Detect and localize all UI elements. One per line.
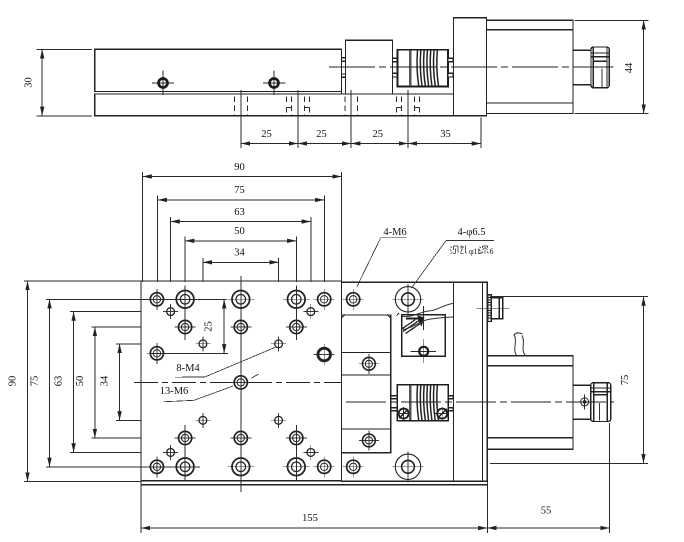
cable clamp block (plan)	[402, 315, 445, 357]
through hole col 50L row 75B	[172, 453, 199, 480]
cable clamp detail	[403, 306, 425, 334]
dimension 30 (stage height)	[24, 49, 43, 116]
svg-text:75: 75	[234, 185, 245, 196]
dimension 155 (base length)	[141, 513, 487, 528]
through hole col C row 75T	[227, 286, 254, 313]
M6 corner hole col 75L row 75B	[146, 456, 167, 477]
dimension 25 (mid hole offset)	[204, 299, 225, 353]
M4 hole col 34L row 34B	[195, 413, 210, 428]
side view: stage base plate	[95, 94, 487, 116]
svg-text:6: 6	[490, 247, 494, 256]
knob parting line	[601, 69, 603, 88]
side view: moving top plate	[95, 49, 342, 91]
M6 hole col C row 50B	[230, 428, 251, 449]
label 4-M6 with leader	[357, 227, 407, 287]
extension lines for dim 30	[37, 49, 93, 116]
svg-text:63: 63	[54, 376, 65, 387]
dimension 63 (width)	[171, 207, 311, 222]
svg-text:90: 90	[8, 376, 19, 387]
M6 hole col 50L row 50T	[175, 317, 196, 338]
hidden base hole 3	[345, 97, 358, 116]
horizontal centerline of plan view	[134, 381, 354, 383]
M6 hole col C row 50T	[230, 317, 251, 338]
svg-text:35: 35	[440, 129, 451, 140]
dimension 75 (width)	[158, 185, 325, 200]
svg-text:75: 75	[620, 375, 631, 386]
hidden base hole 1	[235, 97, 248, 116]
knob knurl lines	[592, 53, 609, 61]
plan view: moving top plate	[141, 281, 342, 481]
extension lines for base hole chain dims	[241, 90, 481, 148]
micrometer knob (plan)	[591, 383, 611, 422]
screw axis centerline (plan)	[346, 401, 614, 403]
coupling tab right (lower mark)	[448, 73, 453, 77]
M6 mid hole right (bold)	[314, 344, 335, 365]
through hole col 50R row 75B	[283, 453, 310, 480]
base counterbore hole bottom	[393, 451, 424, 482]
dimension 75 (height)	[30, 299, 50, 467]
screw axis centerline (side view)	[329, 66, 614, 68]
micrometer body upper line	[487, 29, 574, 31]
dimension 63 (height)	[54, 312, 74, 453]
coupling tab marks right (plan)	[448, 396, 453, 411]
push tab on top plate right edge (upper)	[342, 58, 346, 61]
chamfer ticks on side block	[342, 314, 391, 318]
micrometer body (plan)	[487, 356, 573, 450]
merged hole column lines col 50R	[295, 286, 297, 481]
coupling clamp screw right	[435, 407, 449, 420]
svg-text:44: 44	[624, 62, 635, 73]
coupling tab left (lower mark)	[393, 73, 398, 77]
dimension 55 (micrometer extension)	[487, 506, 609, 529]
svg-text:8-M4: 8-M4	[176, 363, 200, 374]
svg-text:25: 25	[204, 321, 215, 332]
plan view: base plate right portion	[342, 282, 488, 481]
through hole col 50L row 75T	[172, 286, 199, 313]
side block hole lower	[359, 430, 379, 450]
svg-text:155: 155	[302, 513, 318, 524]
label 4-phi6.5 counterbore with leader	[412, 227, 495, 288]
coupling coil turns	[417, 51, 438, 86]
M4 hole col 34R row 34T	[271, 336, 286, 351]
stem set screw	[581, 395, 589, 410]
svg-text:25: 25	[316, 129, 327, 140]
row construction line (bottom hole row)	[52, 466, 200, 468]
lock thumbscrew (plan)	[477, 295, 510, 322]
dimension 35 (hole to edge)	[408, 129, 481, 144]
M6 hole col 50L row 50B	[175, 428, 196, 449]
micrometer body lower line	[487, 102, 574, 104]
plan view: base plate bottom edge	[141, 484, 487, 486]
hidden base hole 4 (counterbored)	[396, 97, 419, 116]
dimension 25 (hole pitch 3)	[351, 129, 408, 144]
dimension 25 (hole pitch 2)	[298, 129, 351, 144]
row construction line (top hole row + dim25 extension)	[52, 298, 227, 300]
svg-text:34: 34	[234, 248, 245, 259]
M4 hole col 34L row 34T	[195, 336, 210, 351]
dimension 44 (micrometer height)	[624, 20, 644, 113]
dimension 90 (height)	[8, 281, 28, 482]
svg-text:φ11: φ11	[469, 247, 481, 256]
sensor cable segment on clamp	[403, 304, 454, 330]
fixed end bracket	[454, 18, 487, 116]
coupling clamp screw left	[397, 407, 411, 420]
coupling coil turns (plan)	[417, 385, 438, 420]
svg-text:25: 25	[373, 129, 384, 140]
M6 corner hole col 75R row 75B	[314, 456, 335, 477]
spring coupling body	[398, 50, 449, 87]
M4 hole col 63R row 63B	[303, 445, 318, 460]
dimension 50 (height)	[75, 327, 95, 438]
M6 hole col 50R row 50T	[286, 317, 307, 338]
micrometer stem	[573, 50, 591, 84]
svg-text:4-M6: 4-M6	[383, 227, 406, 238]
svg-text:4-φ6.5: 4-φ6.5	[458, 227, 486, 238]
knob parting line (plan)	[599, 403, 601, 421]
base M6 hole bottom	[343, 456, 364, 477]
M6 center hole	[230, 372, 251, 393]
45 degree tick near center hole	[252, 374, 259, 378]
M4 hole col 63L row 63B	[163, 445, 178, 460]
through hole col C row 75B	[227, 453, 254, 480]
svg-text:90: 90	[234, 162, 245, 173]
micrometer knob	[591, 47, 609, 88]
label 13-M6 with leader	[160, 386, 233, 402]
dimension 34 (height)	[100, 344, 120, 421]
svg-text:75: 75	[30, 376, 41, 387]
knob knurl lines (plan)	[591, 388, 610, 395]
through hole col 50R row 75T	[283, 286, 310, 313]
svg-text:50: 50	[234, 226, 245, 237]
dimension 75 (base hole spacing)	[620, 297, 644, 464]
M6 hole col 50R row 50B	[286, 428, 307, 449]
micrometer body	[487, 20, 574, 113]
hole in top plate (right)	[263, 71, 286, 96]
extension lines for dim 44	[575, 20, 649, 113]
svg-text:55: 55	[541, 506, 552, 517]
M4 hole col 63L row 63T	[163, 304, 178, 319]
clamp screw hole	[411, 339, 436, 363]
svg-text:13-M6: 13-M6	[160, 386, 189, 397]
svg-text:63: 63	[234, 207, 245, 218]
M6 mid hole left	[146, 343, 167, 364]
M6 corner hole col 75L row 75T	[146, 289, 167, 310]
hidden base hole 2 (counterbored)	[286, 97, 309, 116]
hole in top plate (left)	[152, 71, 174, 96]
sensor cable segment to body	[514, 333, 526, 356]
coupling tab left (upper mark)	[393, 58, 398, 62]
svg-text:25: 25	[261, 129, 272, 140]
coupling inner flange line	[409, 51, 411, 86]
push tab on top plate right edge (lower)	[342, 74, 346, 77]
extension lines for dim 75 (right)	[490, 297, 648, 464]
coupling tab right (upper mark)	[448, 58, 453, 62]
center column line	[240, 276, 242, 492]
chamfer tick left of clamp block	[397, 313, 400, 316]
dimension 50 (width)	[185, 226, 296, 241]
dimension 25 (hole pitch 1)	[241, 129, 298, 144]
M4 hole col 63R row 63T	[303, 304, 318, 319]
fixed end bracket (plan)	[454, 282, 483, 481]
base M6 hole top	[343, 289, 364, 310]
extension lines for top width dims	[143, 172, 342, 282]
top plate right edge extension	[341, 92, 343, 95]
spring coupling (plan)	[397, 385, 448, 421]
carriage end block	[346, 40, 393, 94]
dimension 90 (width)	[143, 162, 342, 177]
M6 corner hole col 75R row 75T	[314, 289, 335, 310]
svg-text:30: 30	[24, 77, 35, 88]
svg-text:34: 34	[100, 375, 111, 386]
micrometer stem (plan)	[573, 385, 591, 419]
extension line for internal dim 25	[150, 352, 228, 354]
merged hole column lines col 50L	[184, 286, 186, 481]
base counterbore hole top	[393, 284, 424, 315]
coupling tab marks left (plan)	[391, 396, 397, 411]
carriage side block (plan)	[342, 315, 391, 453]
M4 hole col 34R row 34B	[271, 413, 286, 428]
svg-text:50: 50	[75, 376, 86, 387]
label 8-M4 with leader	[175, 347, 276, 377]
dimension 34 (width)	[203, 248, 279, 263]
side block hole upper	[359, 354, 379, 374]
extension lines for left height dims	[24, 281, 141, 482]
extension lines for dims 155 and 55	[141, 423, 610, 533]
